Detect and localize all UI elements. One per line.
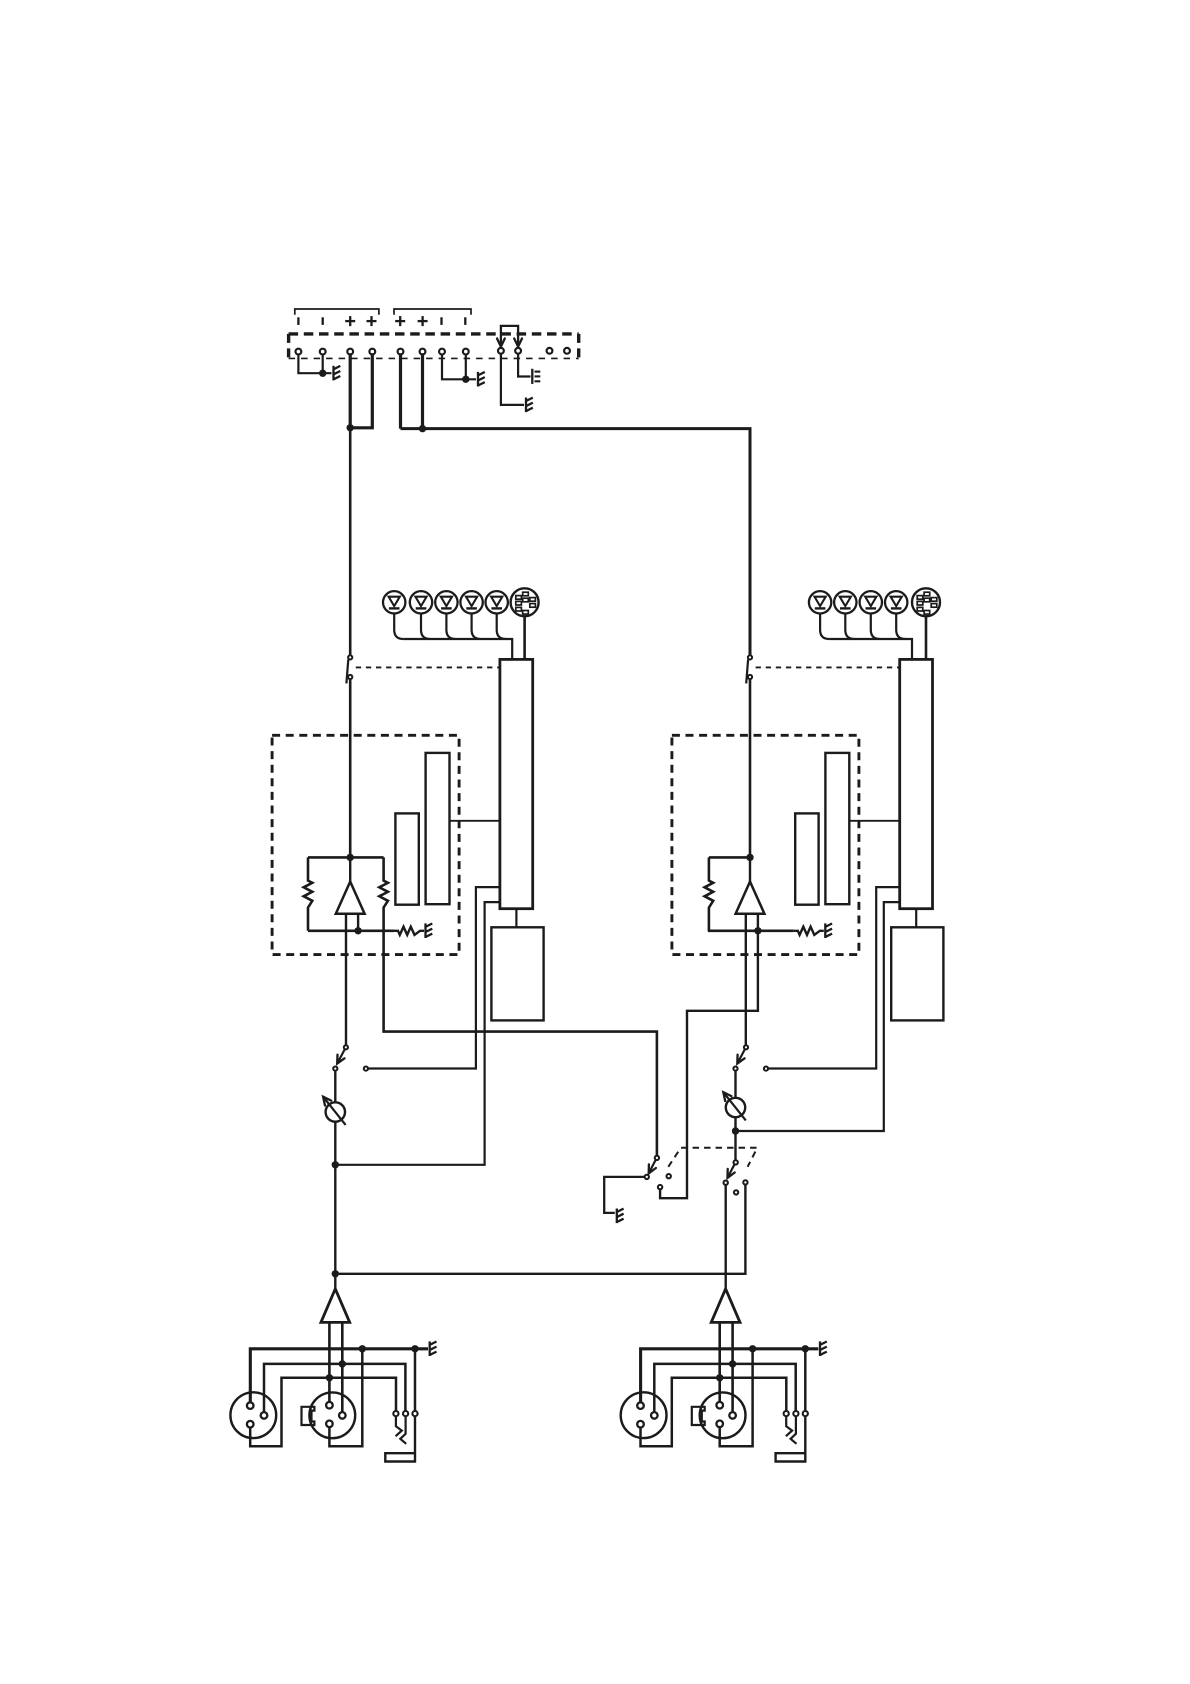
volume pot VR1 bbox=[323, 1097, 346, 1125]
junction bus-ground A CH1 bbox=[359, 1345, 366, 1352]
wire S3B pole to power amp A2 bbox=[725, 1185, 727, 1288]
resistor R4 (CH2 feedback) bbox=[705, 857, 714, 930]
ground G6 (preamp CH2) bbox=[825, 923, 832, 938]
wire LED D4 bbox=[472, 614, 481, 640]
LED D3 (CH1 level) bbox=[435, 591, 457, 613]
terminal 2 bbox=[320, 349, 326, 355]
wire CH1 input down to pad switch bbox=[349, 428, 352, 655]
op-amp U2 (preamp) bbox=[736, 882, 765, 914]
XLR connector CN1B bbox=[309, 1392, 355, 1438]
wire op-amp U1 input from node bbox=[349, 857, 351, 881]
junction terminals 3-4 node CH1 input bbox=[347, 424, 354, 431]
op-amp U2 right leg down to routing wire bbox=[660, 914, 758, 1198]
wire terminal 3 drop (speaker A +) bbox=[349, 353, 352, 428]
jack J1 spring contact A bbox=[396, 1416, 402, 1436]
junction bus-ground B CH1 bbox=[411, 1345, 418, 1352]
junction bus-ground A CH2 bbox=[749, 1345, 756, 1352]
junction preamp input node CH1 bbox=[347, 854, 354, 861]
junction terminals 1-2 bbox=[319, 370, 326, 377]
terminal 1 bbox=[296, 349, 302, 355]
wire terminals 7-8 to ground bbox=[442, 355, 476, 380]
wire terminal 10 to chassis bbox=[518, 354, 530, 377]
LED D6 (CH2 level) bbox=[809, 591, 831, 613]
feedback top rail CH2 bbox=[709, 856, 750, 859]
bracket label speaker group B bbox=[394, 309, 471, 315]
wire CH1 pad switch to preamp bbox=[349, 679, 352, 857]
junction CH1 fader tap node bbox=[332, 1161, 339, 1168]
wire terminal 6 drop bbox=[421, 353, 424, 428]
wire terminal 2 drop bbox=[322, 355, 324, 374]
wire fader tap B CH1 to channel node bbox=[335, 902, 500, 1165]
resistor R3 (CH1 to ground) bbox=[394, 927, 424, 935]
mode switch S1B bbox=[333, 1045, 368, 1070]
preamp dashed box CH2 bbox=[672, 735, 859, 954]
LED D5 (CH1 level) bbox=[486, 591, 508, 613]
lamp/display P1 (CH1 peak) bbox=[511, 588, 539, 616]
wire LED D1 bbox=[394, 614, 403, 640]
junction bus-ground B CH2 bbox=[802, 1345, 809, 1352]
terminal 7 bbox=[439, 349, 445, 355]
LED D4 (CH1 level) bbox=[460, 591, 482, 613]
mono/stereo switch S3B (CH2) bbox=[724, 1160, 748, 1194]
ground bus CH1 (top) bbox=[250, 1349, 428, 1403]
ground G11 (output bus) bbox=[820, 1341, 827, 1356]
terminal 8 bbox=[463, 349, 469, 355]
signal bus CH2 (low) bbox=[641, 1378, 787, 1446]
mode switch S2B bbox=[733, 1045, 768, 1070]
wire terminal 9 to ground bbox=[501, 354, 524, 405]
jack J2 sleeve bbox=[776, 1416, 806, 1461]
signal bus CH1 (low) bbox=[250, 1378, 396, 1446]
wire XLR-B pin3 loop CH1 bbox=[329, 1349, 362, 1446]
block gain stage CH1 (small) bbox=[395, 813, 418, 904]
LED D7 (CH2 level) bbox=[834, 591, 856, 613]
bottom rail CH2 bbox=[708, 929, 794, 932]
jack J1 spring contact B bbox=[400, 1416, 406, 1444]
XLR latch CN2B bbox=[692, 1407, 705, 1425]
LED bus CH2 into fader bbox=[829, 639, 912, 659]
junction amp leg/low bus CH2 bbox=[716, 1374, 723, 1381]
volume pot VR2 bbox=[723, 1092, 746, 1120]
fader/VCA block CH1 bbox=[500, 659, 533, 908]
junction amp leg/mid bus CH2 bbox=[729, 1360, 736, 1367]
wire LED D5 bbox=[497, 614, 506, 640]
ground bus CH2 (top) bbox=[641, 1349, 819, 1403]
op-amp U1 left leg to mode switch bbox=[345, 914, 347, 1045]
XLR connector CN2A bbox=[621, 1392, 667, 1438]
terminal 6 bbox=[420, 349, 426, 355]
power amp A1 output legs bbox=[329, 1322, 342, 1412]
wire fader tap A CH1 to mode switch contact bbox=[368, 887, 500, 1068]
ground G1 (speaker A return) bbox=[334, 366, 341, 381]
fader/VCA block CH2 bbox=[900, 659, 933, 908]
LED D1 (CH1 level) bbox=[383, 591, 405, 613]
junction CH1 bridge node bbox=[332, 1270, 339, 1277]
ground G9 (mono switch) bbox=[617, 1209, 624, 1224]
jumper link terminals 9-10 with arrows bbox=[497, 326, 522, 347]
phone jack J2 contacts bbox=[784, 1411, 808, 1416]
wire CH2 pad switch to preamp bbox=[749, 679, 752, 857]
signal bus CH1 (mid) bbox=[264, 1364, 405, 1412]
dashed link pad switch to fader CH1 bbox=[356, 666, 500, 668]
preamp dashed box CH1 bbox=[272, 735, 459, 954]
wire fader CH1 to mute block bbox=[515, 909, 517, 928]
resistor R5 (CH2 to ground) bbox=[794, 927, 824, 935]
ground G3 bbox=[526, 398, 533, 413]
wire LED D9 bbox=[896, 614, 905, 640]
wire terminal 8 drop bbox=[465, 355, 467, 380]
wire S3A pole to ground bbox=[604, 1177, 644, 1213]
wire LED D7 bbox=[845, 614, 854, 640]
mono/stereo switch S3A (CH1) bbox=[645, 1156, 671, 1190]
LED D8 (CH2 level) bbox=[860, 591, 882, 613]
wire mode switch to volume pot CH1 bbox=[334, 1071, 336, 1103]
wire fader tap A CH2 to mode switch contact bbox=[768, 887, 900, 1068]
jack J2 spring contact B bbox=[791, 1416, 797, 1444]
signal bus CH2 (mid) bbox=[654, 1364, 795, 1412]
junction preamp input node CH2 bbox=[746, 854, 753, 861]
block gain stage CH1 (tall) bbox=[426, 753, 450, 904]
junction amp leg/mid bus CH1 bbox=[339, 1360, 346, 1367]
ground G2 (speaker B return) bbox=[478, 372, 485, 387]
wire lamp P2 to fader bbox=[925, 616, 928, 659]
op-amp U2 left leg to mode switch bbox=[745, 914, 747, 1045]
junction terminals 7-8 bbox=[462, 376, 469, 383]
polarity signs group B (+ + - -) bbox=[395, 316, 465, 326]
junction op-amp U2 inverting node bbox=[754, 927, 761, 934]
jack J2 spring contact A bbox=[786, 1416, 792, 1436]
chassis ground G4 bbox=[532, 369, 540, 384]
ground G5 (preamp CH1) bbox=[426, 923, 433, 938]
wire op-amp U2 input from node bbox=[749, 857, 751, 881]
terminal 3 bbox=[347, 349, 353, 355]
wire terminals 1-2 to ground bbox=[298, 355, 331, 374]
op-amp U1 right leg to bottom rail bbox=[357, 914, 359, 931]
pad switch S2A bbox=[746, 655, 752, 683]
XLR connector CN1A bbox=[230, 1392, 276, 1438]
dashed link pad switch to fader CH2 bbox=[756, 666, 900, 668]
bracket label speaker group A bbox=[295, 309, 379, 315]
wire jack J1 tip to bus bbox=[414, 1349, 417, 1411]
LED D9 (CH2 level) bbox=[885, 591, 907, 613]
resistor R1 (CH1 feedback) bbox=[304, 857, 313, 930]
mute block CH2 bbox=[891, 927, 943, 1020]
wire terminal 4 drop bbox=[350, 353, 372, 428]
power amp A2 output legs bbox=[720, 1322, 733, 1412]
wire lamp P1 to fader bbox=[523, 616, 526, 659]
dashed mechanical link S3A-S3B bbox=[668, 1148, 757, 1167]
wire XLR-B pin3 loop CH2 bbox=[720, 1349, 753, 1446]
wire pot VR1 to power amp node bbox=[334, 1122, 336, 1288]
wire mode switch to volume pot CH2 bbox=[734, 1071, 736, 1098]
lamp/display P2 (CH2 peak) bbox=[912, 588, 940, 616]
junction op-amp U1 inverting node bbox=[354, 927, 361, 934]
resistor R2 (CH1) bbox=[379, 857, 657, 1155]
terminal 4 bbox=[369, 349, 375, 355]
wire node CH2 feed (long horizontal) bbox=[401, 429, 751, 656]
terminal 9 bbox=[498, 348, 504, 354]
jack J1 sleeve bbox=[385, 1416, 415, 1461]
power amp A2 bbox=[711, 1289, 740, 1323]
wire LED D8 bbox=[871, 614, 880, 640]
XLR latch CN1B bbox=[302, 1407, 315, 1425]
wire fader tap B CH2 to pot node bbox=[736, 902, 901, 1131]
LED bus CH1 into fader bbox=[403, 639, 512, 659]
wire block to fader CH2 bbox=[849, 820, 899, 822]
mute block CH1 bbox=[491, 927, 543, 1020]
wire terminal 5 drop (speaker B +) bbox=[399, 353, 402, 428]
block gain stage CH2 (small) bbox=[795, 813, 818, 904]
wire LED D3 bbox=[446, 614, 455, 640]
junction terminals 5-6 node CH2 input bbox=[419, 425, 426, 432]
block gain stage CH2 (tall) bbox=[825, 753, 849, 904]
feedback top rail CH1 bbox=[308, 856, 384, 859]
terminal 10 bbox=[515, 348, 521, 354]
terminal 11 bbox=[547, 348, 553, 354]
wire fader CH2 to mute block bbox=[915, 909, 917, 928]
pad switch S1A bbox=[346, 655, 352, 683]
ground G10 (output bus) bbox=[430, 1341, 437, 1356]
wire jack J2 tip to bus bbox=[804, 1349, 807, 1411]
polarity signs group A (- - + +) bbox=[298, 316, 376, 326]
power amp A1 bbox=[321, 1289, 350, 1323]
op-amp U1 (preamp) bbox=[336, 882, 365, 914]
terminal 12 bbox=[564, 348, 570, 354]
wire pot VR2 down to mono switch bbox=[734, 1117, 736, 1160]
wire LED D2 bbox=[421, 614, 430, 640]
terminal strip TB1 (dashed outline) bbox=[289, 334, 579, 359]
wire block to fader CH1 bbox=[450, 820, 500, 822]
wire LED D6 bbox=[820, 614, 829, 640]
wire bridge CH1 to mono switch contact bbox=[335, 1185, 745, 1274]
junction CH2 pot node bbox=[732, 1127, 739, 1134]
LED D2 (CH1 level) bbox=[410, 591, 432, 613]
junction amp leg/low bus CH1 bbox=[326, 1374, 333, 1381]
terminal 5 bbox=[398, 349, 404, 355]
bottom rail CH1 bbox=[308, 929, 394, 932]
XLR connector CN2B bbox=[700, 1392, 746, 1438]
phone jack J1 contacts bbox=[393, 1411, 417, 1416]
